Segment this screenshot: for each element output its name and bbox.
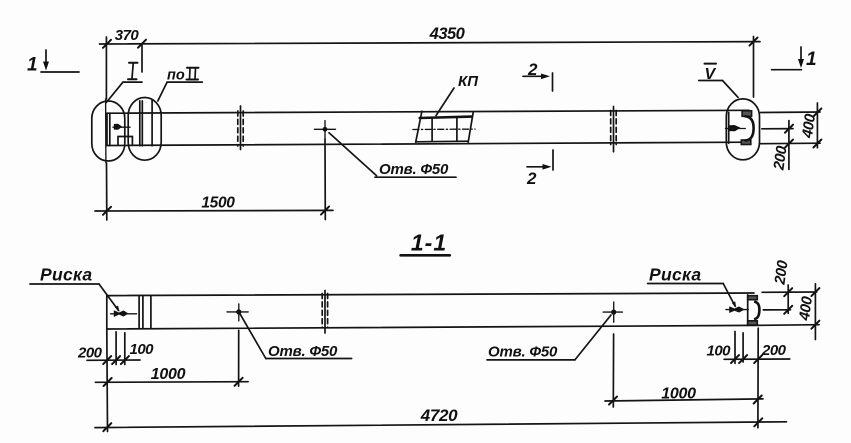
extension for 1500 left xyxy=(106,163,108,220)
extension from hole down to 1500 dim xyxy=(324,139,326,220)
extension from hole 1 down xyxy=(238,330,240,386)
collar lines (bottom view left) xyxy=(139,295,151,328)
beam body bottom view xyxy=(107,293,754,329)
svg-text:370: 370 xyxy=(115,27,140,44)
svg-text:1000: 1000 xyxy=(661,386,696,403)
extension from hole 2 down xyxy=(612,334,614,407)
dim 100 / 200 (bottom view right) xyxy=(707,342,790,363)
hole centre 2 (bottom view) xyxy=(603,302,622,322)
beam body top view xyxy=(107,110,749,145)
svg-text:Отв. Ф50: Отв. Ф50 xyxy=(379,161,449,178)
svg-text:200: 200 xyxy=(771,259,791,287)
dim 1000 (bottom view left) xyxy=(95,366,248,386)
leader and label Отв. Ф50 (bottom view right) xyxy=(487,315,611,361)
label "по II" with leader xyxy=(158,68,203,102)
right end bottom corner plate xyxy=(741,140,751,145)
detail callout capsule I (left end) xyxy=(92,101,125,161)
bottom left dim extensions xyxy=(107,329,125,432)
right side vertical dims (top view): extension lines xyxy=(761,112,821,144)
label I with leader xyxy=(106,63,142,103)
joint lines at x=325 (bottom view) xyxy=(322,291,327,334)
riska mark in capsule I xyxy=(113,124,130,130)
hole centre top view xyxy=(315,121,336,140)
right end montage loop (side) xyxy=(755,302,759,319)
riska mark left (bottom view) xyxy=(111,310,137,317)
label V with leader xyxy=(699,64,738,98)
right end top corner plate xyxy=(748,296,758,300)
svg-text:4350: 4350 xyxy=(429,25,466,43)
dim 400 (bottom view right) xyxy=(796,284,820,340)
riska mark right (bottom view) xyxy=(726,306,748,313)
svg-text:1500: 1500 xyxy=(201,195,235,212)
svg-text:200: 200 xyxy=(77,345,103,362)
bottom right dim extensions (100/200) xyxy=(735,328,758,428)
joint lines at x=240 (top view) xyxy=(238,106,243,150)
KP plate (closure plate) xyxy=(413,111,475,142)
svg-text:1: 1 xyxy=(27,55,38,76)
dim 200 / 100 (bottom view left) xyxy=(77,341,154,364)
svg-text:200: 200 xyxy=(770,144,790,172)
svg-text:1000: 1000 xyxy=(151,366,186,383)
svg-text:КП: КП xyxy=(458,73,479,90)
section mark 2 (lower) xyxy=(526,150,553,188)
svg-text:Риска: Риска xyxy=(40,265,92,285)
svg-text:2: 2 xyxy=(526,169,537,188)
dim 200 (top view right) xyxy=(770,121,793,172)
right end riska blob xyxy=(726,125,746,131)
svg-text:1-1: 1-1 xyxy=(411,230,447,256)
leader and label Отв. Ф50 (top view) xyxy=(329,133,456,178)
svg-text:400: 400 xyxy=(796,295,816,323)
svg-text:100: 100 xyxy=(130,341,155,358)
detail callout capsule II xyxy=(128,98,161,161)
label Риска right with leader xyxy=(648,265,737,308)
title 1-1 xyxy=(401,230,450,256)
joint lines at x=613 (top view) xyxy=(611,107,617,152)
right end bottom corner plate xyxy=(748,321,758,325)
svg-text:по: по xyxy=(167,68,185,84)
dim 400 (top view right) xyxy=(799,103,822,148)
extension line left (x=106.5) xyxy=(105,37,107,99)
bottom view right vertical dims: extensions xyxy=(754,292,819,325)
svg-text:1: 1 xyxy=(806,49,817,70)
section mark 2 (upper) xyxy=(523,60,553,91)
svg-text:100: 100 xyxy=(707,343,732,360)
dim 4720 (overall) xyxy=(95,406,787,431)
svg-text:200: 200 xyxy=(761,342,787,359)
label KP with leader xyxy=(436,73,479,116)
right end detail: weld line xyxy=(728,112,730,143)
extension line mid (x=142) xyxy=(141,44,143,72)
section mark 1 (top right) xyxy=(772,47,817,70)
dim 1000 (bottom view right) xyxy=(605,386,763,405)
hole centre 1 (bottom view) xyxy=(227,304,248,321)
extension line right (x=753.5) xyxy=(753,37,755,98)
dimension 1500 xyxy=(95,195,333,215)
section mark 1 (top left) xyxy=(27,50,79,76)
collar lines in capsule II xyxy=(140,100,152,146)
right end montage loop bracket xyxy=(745,116,753,140)
dimension line 370 / 4350 xyxy=(100,38,761,48)
dim 200 (bottom view right) xyxy=(771,259,792,314)
svg-text:Риска: Риска xyxy=(649,265,701,285)
detail callout capsule V (right end) xyxy=(726,99,759,160)
step notch in capsule I xyxy=(118,137,132,146)
svg-text:Отв. Ф50: Отв. Ф50 xyxy=(268,343,338,360)
leader and label Отв. Ф50 (bottom view left) xyxy=(240,314,352,360)
right end top corner plate xyxy=(742,111,752,117)
label Риска left with leader xyxy=(30,265,120,312)
svg-text:4720: 4720 xyxy=(420,406,458,425)
svg-text:400: 400 xyxy=(799,112,819,140)
right end (bottom view): end line xyxy=(747,295,749,326)
svg-text:Отв. Ф50: Отв. Ф50 xyxy=(488,344,558,361)
